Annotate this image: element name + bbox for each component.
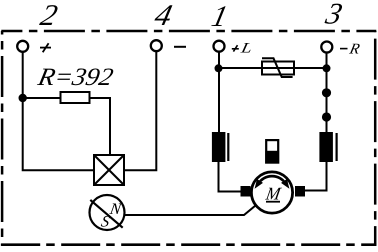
wire terminal 4 down and left to crossed box <box>124 52 156 171</box>
dot E on wire 3 <box>322 112 331 121</box>
enclosure dash-dot border top <box>1 30 376 33</box>
svg-text:4: 4 <box>152 0 176 32</box>
magnet circle N/S <box>90 195 125 230</box>
wire magnet to motor <box>125 206 256 216</box>
capacitor C2 line <box>336 133 338 161</box>
wire capacitor C2 to right brush <box>305 162 327 191</box>
fuse F1 <box>262 58 294 77</box>
terminal label 2 <box>37 0 60 32</box>
motor rotation arrow <box>255 176 290 189</box>
motor M underline <box>266 201 280 203</box>
wire terminal 3 down to capacitor <box>326 53 328 132</box>
terminal 4 <box>151 40 162 51</box>
svg-text:R: R <box>347 41 361 58</box>
terminal 2 <box>17 41 28 52</box>
label -R <box>340 41 361 58</box>
dot D on wire 3 <box>322 88 331 97</box>
svg-text:3: 3 <box>322 0 346 30</box>
enclosure dash-dot border left <box>1 31 4 246</box>
wire terminal 2 down to junction and to lower corner <box>23 52 94 170</box>
motor left brush <box>241 186 251 197</box>
junction dot C <box>323 64 331 72</box>
thermal breaker (third brush element) <box>265 140 279 163</box>
terminal 1 <box>214 41 225 52</box>
label R=392 <box>35 63 116 91</box>
magnet diagonal <box>90 200 122 228</box>
resistor R=392 <box>61 92 90 103</box>
wire terminal 1 down to capacitor <box>218 52 220 132</box>
svg-text:1: 1 <box>209 0 231 33</box>
label S <box>100 214 111 231</box>
svg-text:L: L <box>238 41 253 57</box>
wire capacitor C1 to left brush <box>219 162 241 192</box>
plus sign at terminal 2 <box>40 43 51 52</box>
terminal 3 <box>321 42 332 53</box>
terminal label 4 <box>152 0 176 32</box>
motor right brush <box>295 186 305 197</box>
wire junction B to fuse and through to junction C <box>219 67 327 69</box>
capacitor C2 plate <box>319 132 333 162</box>
label +L <box>232 41 254 57</box>
svg-text:R=392: R=392 <box>35 63 116 91</box>
terminal label 3 <box>322 0 346 30</box>
wire resistor right to corner and down to crossed box <box>90 98 111 155</box>
label N <box>108 201 124 218</box>
label M <box>264 184 283 204</box>
capacitor C1 line <box>227 133 229 161</box>
svg-text:2: 2 <box>37 0 60 32</box>
crossed box (switch) <box>94 155 124 185</box>
enclosure dash-dot border right <box>374 31 377 246</box>
enclosure dash-dot border bottom <box>1 243 376 246</box>
junction dot B <box>215 64 223 72</box>
minus sign at terminal 4 <box>174 46 186 48</box>
motor M circle <box>251 172 292 213</box>
capacitor C1 plate <box>212 132 226 162</box>
terminal label 1 <box>209 0 231 33</box>
junction dot A <box>19 94 27 102</box>
wire junction to resistor <box>23 97 61 99</box>
